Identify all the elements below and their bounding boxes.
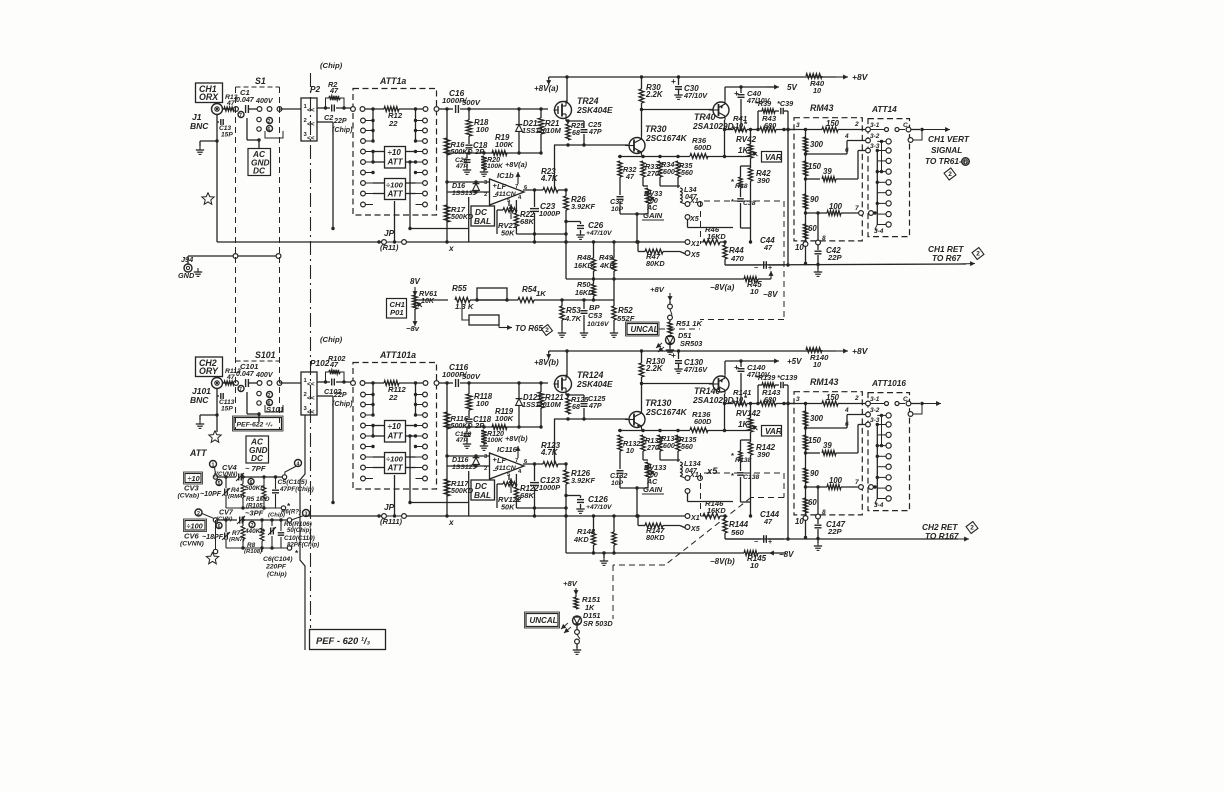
contact [361,434,375,439]
svg-text:+8V: +8V [563,579,578,588]
capacitor C18 2P [466,136,488,156]
svg-text:500V: 500V [462,372,481,381]
svg-text:X1: X1 [690,514,700,522]
block RM43 [794,103,862,241]
svg-text:1000P: 1000P [539,483,560,492]
svg-text:150: 150 [826,119,840,128]
svg-text:2: 2 [268,119,271,125]
block /100 [184,519,207,532]
contact [361,392,375,397]
resistor R138 [731,440,751,464]
resistor R32 47 [618,161,637,192]
contact [877,139,891,144]
block /10 [184,472,203,484]
capacitor C25 47P [581,120,603,145]
contact [877,212,891,217]
wire elbow [908,404,922,417]
svg-text:+8V(a): +8V(a) [505,160,528,169]
wire [371,107,374,141]
resistor R41 10 [725,114,759,132]
svg-text:ORY: ORY [199,366,219,376]
wire [725,361,775,374]
svg-text:3: 3 [796,396,800,403]
resistor R23 4.7K [523,167,566,192]
label 3-4 [874,225,884,236]
jumper [885,396,911,406]
svg-text:0.047: 0.047 [236,370,255,378]
svg-text:400V: 400V [255,371,274,379]
wire [477,299,518,301]
svg-text:−8V(a): −8V(a) [710,283,735,292]
svg-text:68K: 68K [520,217,534,226]
contact [416,181,428,186]
svg-text:x5: x5 [706,465,718,476]
svg-text:S101: S101 [255,350,276,360]
svg-text:10: 10 [795,517,804,526]
svg-text:680: 680 [764,121,776,130]
svg-text:C138: C138 [743,474,759,481]
ground [196,141,217,154]
svg-text:CV6: CV6 [184,532,200,541]
uncal +8V [650,285,673,304]
svg-text:+8V: +8V [650,285,665,294]
wire feedback [554,145,556,190]
svg-text:(RN7): (RN7) [229,537,245,543]
svg-text:22: 22 [388,393,398,402]
label PEF-622 [233,416,284,431]
trimmer RV21 50K [497,201,517,238]
svg-text:TO R167: TO R167 [925,531,959,541]
capacitor C102 22P [317,379,353,409]
power 5V [767,83,797,92]
svg-text:10: 10 [750,287,759,296]
svg-text:60: 60 [808,224,817,233]
svg-text:CV3: CV3 [184,484,200,493]
wire [223,108,237,110]
resistor R42 390 [748,158,771,228]
connector J101 BNC [190,378,223,406]
uncal2 +8V [563,579,579,597]
svg-text:GND: GND [178,271,195,280]
wire [620,212,648,243]
ground [196,415,217,428]
svg-text:10P: 10P [611,480,624,487]
resistor R35 560 [676,161,694,186]
resistor R148 4KD [573,514,596,553]
svg-text:BAL: BAL [474,216,491,226]
contact [351,381,365,386]
resistor 150 [822,393,865,406]
wire [373,457,416,468]
svg-text:X1: X1 [690,240,700,248]
contact [414,149,428,154]
contact 3-1 [866,122,884,132]
resistor R30 2.2K [639,77,664,110]
svg-text:8: 8 [822,235,826,242]
wire [414,107,417,141]
transistor TR140 2SA1029D [692,374,734,405]
resistor R46 16KD [703,225,726,245]
pin 2 [854,121,859,128]
svg-text:47: 47 [329,86,339,95]
contact [414,402,428,407]
block RM143 [794,377,862,515]
svg-text:2.2K: 2.2K [645,90,664,99]
terminal 6 [248,479,254,487]
wire [247,118,261,148]
svg-text:ATT14: ATT14 [871,104,897,114]
svg-text:TO R67: TO R67 [932,253,961,263]
svg-text:150: 150 [826,393,840,402]
trimmer RV61 10K [413,289,438,326]
svg-text:JP: JP [384,228,395,238]
resistor R47 80KD [636,240,685,268]
svg-text:~3PF: ~3PF [245,509,264,518]
switch [573,625,581,654]
svg-text:−8V(b): −8V(b) [710,557,735,566]
wire tap7 [804,485,827,488]
wire [788,402,822,405]
wire [410,228,469,230]
svg-text:7: 7 [239,113,242,119]
label ATT [189,448,207,458]
svg-text:(CVNN): (CVNN) [180,541,205,548]
resistor 150b [803,161,821,176]
wire [741,502,753,518]
rail +8V [549,72,869,82]
wire [224,518,282,521]
terminal 6b [216,523,222,531]
switch X1/X5 lower [594,514,712,533]
wire coll [723,120,726,158]
resistor 300 [803,411,823,426]
svg-text:(R108): (R108) [244,549,262,555]
resistor R16 500KD [444,138,472,156]
svg-text:2: 2 [854,121,859,128]
svg-text:1: 1 [212,463,215,469]
wire [249,382,257,384]
svg-text:R50: R50 [577,280,590,289]
svg-text:5V: 5V [787,83,797,92]
flag 2 [943,167,957,181]
wire row [226,501,291,511]
trimmer RV133 200 AC GAIN [642,460,666,494]
trimmer R6 50 [268,520,312,548]
wire [725,87,775,100]
svg-text:ATT: ATT [189,448,207,458]
label CV6 [180,532,205,548]
capacitor C101 0.047/400V [236,362,274,387]
power +8V(a) op [505,160,528,184]
svg-text:2SC1674K: 2SC1674K [645,407,688,417]
svg-text:VAR: VAR [765,426,782,436]
wire [223,382,237,384]
contact [361,455,373,460]
capacitor C126 47/10V [564,494,613,514]
contact [361,202,373,207]
svg-text:560: 560 [731,528,745,537]
svg-text:X5: X5 [689,215,700,223]
contact [257,381,282,386]
contact [423,381,439,386]
svg-text:560: 560 [681,169,693,177]
star [206,552,218,564]
contact 3-3 [866,143,880,153]
svg-text:D116: D116 [452,456,468,464]
transistor TR30 2SC1674K [625,124,688,156]
svg-text:(CVab): (CVab) [178,493,200,500]
switch uncal [668,304,673,320]
power +8V(a) [534,351,559,367]
capacitor C1 0.047/400V [236,88,274,113]
contact [361,149,375,154]
switch X1/X5 upper [680,197,702,223]
resistor R112 22 [365,381,423,402]
svg-text:50K: 50K [501,503,515,512]
attenuator ATT101a [353,350,437,489]
svg-text:RM143: RM143 [810,377,838,387]
svg-text:ATT: ATT [387,158,404,167]
wire [265,405,283,412]
svg-text:R138: R138 [735,457,751,464]
wire [280,108,302,110]
resistor R140 10 [806,348,829,369]
svg-text:3: 3 [305,512,308,518]
wire elbow [908,130,922,143]
capacitor C116 1000P/500V [439,362,549,387]
inductor L134 047 [660,459,701,476]
svg-text:47P: 47P [455,163,468,170]
resistor R133 270 [641,435,663,460]
wire [216,426,218,432]
power 5V [767,357,802,366]
power +8V(a) op [505,434,528,458]
svg-text:R6(R?): R6(R?) [281,509,301,516]
svg-text:4: 4 [844,407,849,414]
wire [215,139,218,242]
svg-text:22P: 22P [827,253,843,262]
contact [876,443,892,448]
arrow TO R65 [499,324,553,336]
wire source [554,393,628,421]
resistor 60 [803,498,817,513]
contact [257,391,261,405]
contact [361,476,373,481]
contact [416,202,428,207]
svg-text:6: 6 [218,524,221,530]
wire tap4 [804,133,865,156]
contact [414,413,428,418]
wire [880,414,883,448]
wire op-in [445,180,489,193]
svg-text:C132: C132 [610,471,627,480]
switch S1 [236,76,280,87]
svg-text:GAIN: GAIN [643,211,663,220]
svg-text:4.7K: 4.7K [540,448,559,457]
svg-text:100: 100 [476,125,489,134]
contact [877,496,891,501]
svg-text:−8v: −8v [406,324,420,333]
capacitor C144 47 [754,510,780,546]
svg-text:600D: 600D [694,417,712,426]
svg-text:4.7K: 4.7K [540,174,559,183]
contact [414,444,428,449]
svg-text:400V: 400V [255,97,274,105]
ladder [805,130,807,243]
svg-text:+: + [734,362,739,372]
svg-text:B: B [964,160,968,166]
terminal 7b [249,522,255,530]
svg-text:*R39: *R39 [755,99,772,108]
svg-text:47: 47 [763,517,773,526]
svg-text:47: 47 [226,374,236,381]
wire [406,152,416,163]
wire [373,183,416,194]
svg-text:100K: 100K [495,414,514,423]
svg-text:600: 600 [663,442,675,450]
svg-text:R38: R38 [735,183,748,190]
wire pin2 [317,396,335,504]
svg-text:60: 60 [808,498,817,507]
op-amp IC116 LF411CN [484,445,528,479]
wire [469,471,568,516]
svg-text:P2: P2 [310,84,321,94]
resistor R50 16KD [575,279,596,300]
contact 3-2 [866,133,880,143]
contact [361,423,375,428]
svg-text:3.92KF: 3.92KF [571,476,595,485]
svg-text:47/16V: 47/16V [683,365,708,374]
contact [361,402,375,407]
capacitor C6 220PF [262,548,293,578]
svg-text:*: * [731,451,734,460]
capacitor C10 82PF [278,520,319,549]
divider /10 ATT [385,421,406,443]
svg-text:10M: 10M [546,126,561,135]
capacitor C123 1000P [530,462,560,517]
wire row [447,425,543,428]
svg-text:5: 5 [218,481,221,487]
attenuator ATT1a [353,76,437,215]
wire [564,514,567,517]
trimmer 10PF [200,477,230,508]
wire coll [723,394,726,432]
svg-text:RV42: RV42 [736,135,757,144]
resistor 39 [822,147,865,181]
svg-text:LF: LF [497,456,506,465]
wire pos row [418,299,448,301]
contact [416,476,428,481]
jumper [885,122,911,132]
contact [361,128,375,133]
svg-text:RM43: RM43 [810,103,834,113]
svg-text:68: 68 [572,403,580,411]
svg-text:+8V: +8V [852,346,869,356]
capacitor C40 47/10V [734,85,771,131]
svg-text:÷100: ÷100 [386,181,404,190]
label -8v [406,324,420,333]
connector P2 [301,84,321,142]
svg-text:(Chip): (Chip) [267,571,287,578]
wire [371,381,374,415]
svg-text:2: 2 [970,525,974,532]
ladder [805,404,807,517]
svg-text:560: 560 [681,443,693,451]
divider /10 ATT [385,147,406,169]
svg-text:3.92KF: 3.92KF [571,202,595,211]
svg-text:C5(C105): C5(C105) [278,479,308,486]
svg-text:600D: 600D [694,143,712,152]
contact [361,160,375,165]
resistor R18 100 [466,107,489,136]
svg-text:ATT1016: ATT1016 [871,378,906,388]
block DC BAL [471,480,495,500]
wire vertical jog [300,415,305,650]
svg-text:300: 300 [810,414,824,423]
svg-text:÷10: ÷10 [388,422,402,431]
svg-text:10: 10 [735,395,743,404]
svg-text:+5V: +5V [787,357,802,366]
svg-text:CV7: CV7 [219,509,234,517]
svg-text:500KD: 500KD [245,485,265,492]
svg-text:2.2K: 2.2K [645,364,664,373]
resistor R39 / capacitor C39 [755,99,794,131]
resistor R141 10 [725,388,759,406]
node 2 [267,392,273,400]
node 6 [267,126,273,134]
contact [257,117,261,131]
diode D116 1SS123 [452,456,479,471]
wire [620,486,648,517]
svg-text:1K: 1K [738,146,749,155]
resistor 90 [803,468,819,483]
resistor R119 100K [492,407,514,429]
svg-text:390: 390 [757,176,771,185]
wire tap6 [804,167,833,181]
wire [247,392,261,422]
svg-text:C32: C32 [610,197,623,206]
output label CH1 VERT SIGNAL [925,134,970,166]
svg-text:3-1: 3-1 [870,122,880,129]
wire collector [640,108,713,136]
svg-text:1K: 1K [536,289,547,298]
connector P102 [301,358,330,416]
svg-text:÷10: ÷10 [188,474,200,483]
star [209,431,221,443]
contact [351,107,365,112]
svg-text:2: 2 [268,393,271,399]
resistor R118 100 [466,381,493,410]
resistor R20 100K [480,156,504,176]
svg-text:+47/10V: +47/10V [586,504,613,511]
resistor R25 68 [566,119,586,140]
divider /100 ATT [385,453,406,474]
svg-text:0.047: 0.047 [236,96,255,104]
label (Chip) [320,335,343,344]
label -8V(a) [710,557,735,566]
wire [393,475,396,518]
svg-text:(Chip): (Chip) [320,61,343,70]
svg-text:16KD: 16KD [707,232,726,241]
svg-text:*: * [731,197,734,206]
svg-text:10M: 10M [546,400,561,409]
svg-text:10P: 10P [611,206,624,213]
capacitor C44 47 [754,236,775,272]
resistor R49 4KD [599,240,616,279]
resistor R117 500KD [444,479,473,496]
svg-text:~10PF: ~10PF [200,490,222,498]
svg-text:47P: 47P [588,128,602,136]
